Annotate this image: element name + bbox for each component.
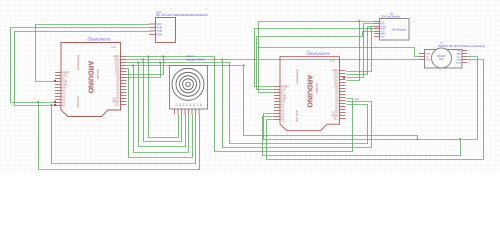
svg-text:SDA: SDA	[426, 53, 431, 56]
speaker SPK1	[170, 55, 208, 115]
wire N17	[267, 60, 484, 160]
junction at 460,139.2	[459, 138, 461, 140]
svg-text:Duemilanove: Duemilanove	[77, 55, 81, 71]
pin connection dot at 55,102	[54, 101, 56, 103]
wire N16	[347, 22, 360, 81]
svg-text:DUEMILANOVE: DUEMILANOVE	[88, 38, 111, 42]
junction at 258.5,47.5	[257, 46, 259, 48]
GPS module GP1	[149, 11, 208, 43]
wire N12b	[255, 29, 375, 87]
wire N6	[127, 57, 353, 152]
svg-text:DS1307 I2C RTC Module (ext bat: DS1307 I2C RTC Module (ext battery)	[438, 44, 485, 48]
svg-text:GND: GND	[381, 34, 386, 36]
svg-text:TXD: TXD	[157, 29, 162, 33]
wire N3	[15, 32, 150, 106]
svg-text:SD-Card Module: SD-Card Module	[381, 15, 401, 19]
junction at 143,59.5	[142, 58, 144, 60]
wire N13b	[264, 57, 478, 140]
svg-text:UNO (R3): UNO (R3)	[295, 110, 299, 122]
junction at 222,59.5	[221, 58, 223, 60]
wire N16b	[347, 29, 372, 72]
svg-text:GND: GND	[426, 60, 431, 62]
wire N14	[347, 24, 375, 78]
svg-text:DUEMILANOVE: DUEMILANOVE	[307, 52, 330, 56]
pin connection dot at 55,81	[54, 80, 56, 82]
wire N8c	[127, 63, 161, 78]
wire N25	[263, 117, 461, 156]
svg-text:ICSP: ICSP	[111, 47, 117, 49]
wire N5	[52, 106, 196, 164]
svg-text:GP-735 GPS SMD-RECEIVER-MODULE: GP-735 GPS SMD-RECEIVER-MODULE	[156, 13, 208, 17]
wire N7	[127, 59, 420, 61]
Arduino U2 (middle)	[274, 51, 346, 131]
wire N1	[36, 25, 150, 82]
svg-text:ICSP: ICSP	[330, 61, 336, 63]
svg-text:ARDUINO: ARDUINO	[306, 75, 313, 108]
junction at 138,62.5	[137, 61, 139, 63]
wire N2	[11, 28, 150, 103]
junction at 243.7,65.5	[243, 64, 245, 66]
wire N9	[127, 66, 418, 140]
svg-text:Duemilanove: Duemilanove	[296, 69, 300, 85]
junction at 51.5,105	[50, 104, 52, 106]
svg-text:RTC: RTC	[439, 58, 444, 61]
junction at 417.5,139.2	[416, 138, 418, 140]
wire N6b	[149, 57, 179, 138]
SD-Card module U3	[374, 12, 409, 40]
svg-text:SDA: SDA	[457, 59, 462, 62]
svg-text:GND: GND	[456, 54, 461, 56]
wire N13	[259, 22, 375, 93]
svg-text:Decimila: Decimila	[315, 83, 319, 94]
junction at 359,21.2	[358, 20, 360, 22]
junction at 160,62.5	[159, 61, 161, 63]
junction at 371,28.5	[370, 27, 372, 29]
svg-text:GND: GND	[354, 99, 359, 101]
pin connection dot at 344,77.5	[343, 76, 345, 78]
svg-text:SD-Module: SD-Module	[392, 28, 406, 32]
junction at 38,102	[37, 101, 39, 103]
svg-text:UNO (R3): UNO (R3)	[76, 96, 80, 108]
wire N21	[259, 48, 420, 57]
junction at 163,56.5	[162, 55, 164, 57]
junction at 133,65.5	[132, 64, 134, 66]
wire N8	[127, 63, 368, 144]
RTC module U4	[419, 43, 485, 69]
svg-text:Speaker 8Ohm: Speaker 8Ohm	[186, 58, 205, 62]
svg-text:MISO: MISO	[381, 29, 387, 31]
svg-text:ARDUINO: ARDUINO	[87, 61, 94, 94]
svg-text:GND: GND	[157, 26, 163, 30]
wire N7c	[223, 60, 372, 148]
wire N8b	[139, 63, 186, 147]
wire N15	[347, 27, 375, 75]
svg-text:SCK: SCK	[381, 24, 386, 26]
wire N9b	[134, 66, 189, 153]
wire N4	[39, 103, 200, 170]
wire N7b	[144, 60, 182, 142]
svg-text:Decimila: Decimila	[96, 69, 100, 80]
wire N10	[127, 69, 193, 158]
junction at 148,56.5	[147, 55, 149, 57]
svg-text:VCC: VCC	[157, 22, 163, 26]
Arduino U1 (left)	[55, 37, 127, 117]
wire N6c	[127, 57, 164, 75]
svg-text:RXD: RXD	[157, 33, 163, 37]
svg-text:SCL: SCL	[115, 104, 120, 107]
wire N12	[257, 32, 375, 90]
pin connection dot at 55,105	[54, 104, 56, 106]
svg-text:SCL: SCL	[334, 118, 339, 121]
